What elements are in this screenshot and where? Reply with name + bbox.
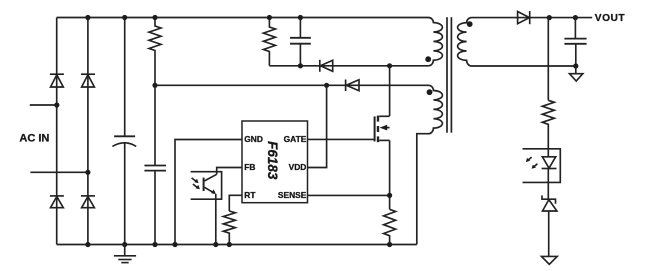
node: AC line 2 to right leg [85,170,90,175]
diode D7 (output rectifier) [518,11,530,24]
wire: FB pin to optocoupler collector [217,168,242,175]
diode D5 (VDD rectifier) [346,80,359,92]
wire: bridge right leg [87,18,89,245]
diode D3 (bridge bottom-left) [50,196,64,208]
wire: VDD pin drop [308,85,327,167]
LED light arrow 2 [532,164,538,169]
ground (primary earth) [114,245,136,263]
wire: MOSFET source down [389,140,391,209]
node: right leg top on rail [85,15,90,20]
opto light arrow 2 [193,184,200,189]
transformer T1 auxiliary winding [417,85,443,244]
wire: top HV rail [57,17,429,19]
svg-text:F6183: F6183 [265,141,280,180]
node: R4 bottom on rail [387,242,392,247]
wire: VDD row to aux winding [155,84,429,86]
LED D8 (opto emitter) [542,157,557,169]
node: opto emitter on rail [213,242,218,247]
ground (secondary bottom arrow) [542,256,558,264]
capacitor C4 (output) [564,18,586,66]
transformer T1 primary winding [390,18,443,66]
node: R2 top on rail [267,15,272,20]
capacitor C2 (VDD) [144,85,166,244]
resistor R1 (startup) [149,18,161,86]
resistor R5 (feedback divider) [542,100,554,157]
diode D6 (snubber clamp) [320,60,333,72]
transformer T1 core [447,17,451,133]
node: C3 top on rail [298,15,303,20]
node: C2 bottom on rail [152,242,157,247]
capacitor C1 (bulk electrolytic) [112,18,136,245]
svg-text:GATE: GATE [284,134,307,144]
node: VDD junction [152,83,157,88]
wire: snubber bottom to primary [269,65,389,67]
node: right leg bottom on rail [85,242,90,247]
optocoupler U2 LED box [523,149,561,183]
wire: VOUT divider drop [547,18,549,101]
resistor R4 (current sense) [384,209,396,244]
svg-text:SENSE: SENSE [278,190,307,200]
node: divider tap on VOUT line [547,15,552,20]
node: aux phase dot [427,89,433,95]
node: C1 bottom on rail [122,242,127,247]
wire: bottom primary ground rail [57,244,417,246]
node: source/SENSE junction [387,193,392,198]
zener diode Z1 [542,195,557,211]
svg-text:RT: RT [244,190,256,200]
resistor R2 (snubber) [263,18,275,66]
LED light arrow 1 [526,157,532,162]
wire: secondary top to VOUT [472,17,593,19]
node: R1 top on rail [152,15,157,20]
svg-text:VOUT: VOUT [595,13,626,24]
wire: AC input line 1 [30,104,57,106]
node: secondary phase dot [467,21,473,27]
capacitor C3 (snubber) [290,18,311,66]
diode D4 (bridge bottom-right) [81,196,95,208]
wire: bridge left leg [56,18,58,245]
node: VDD row to VDD pin [324,83,329,88]
optocoupler U2 phototransistor box [191,172,222,200]
node: GND wire on rail [172,242,177,247]
ground (secondary, under C4) [570,66,583,81]
wire: SENSE pin to source [308,194,390,196]
node: AC line 1 to left leg [54,102,59,107]
node: C1 top on rail [122,15,127,20]
op-amp U1 box (controller F6183) [242,121,308,203]
node: secondary return junction [573,63,578,68]
wire: LED cathode to zener [547,169,549,200]
wire: GND pin to ground rail [175,140,242,245]
node: output cap on VOUT line [573,15,578,20]
transistor Q1 (MOSFET) [375,116,390,143]
diode D1 (bridge top-left) [50,74,64,87]
wire: RT pin down [229,195,242,211]
wire: AC input line 2 [30,171,88,173]
svg-text:FB: FB [244,162,255,172]
svg-text:VDD: VDD [289,162,307,172]
wire: primary bottom to drain [389,66,391,116]
svg-text:AC IN: AC IN [19,133,49,145]
wire: GATE pin to MOSFET gate [308,138,375,140]
opto light arrow 1 [192,178,199,183]
node: R3 bottom on rail [227,242,232,247]
resistor R3 (RT) [223,211,235,245]
node: primary phase dot [425,56,431,62]
svg-text:GND: GND [244,134,263,144]
node: primary bottom junction [387,63,392,68]
diode D2 (bridge top-right) [81,74,95,87]
wire: zener to secondary ground [548,211,550,256]
transistor Q2 (opto phototransistor) [204,174,217,244]
node: C3 bottom [298,63,303,68]
transformer T1 secondary winding [458,18,576,66]
